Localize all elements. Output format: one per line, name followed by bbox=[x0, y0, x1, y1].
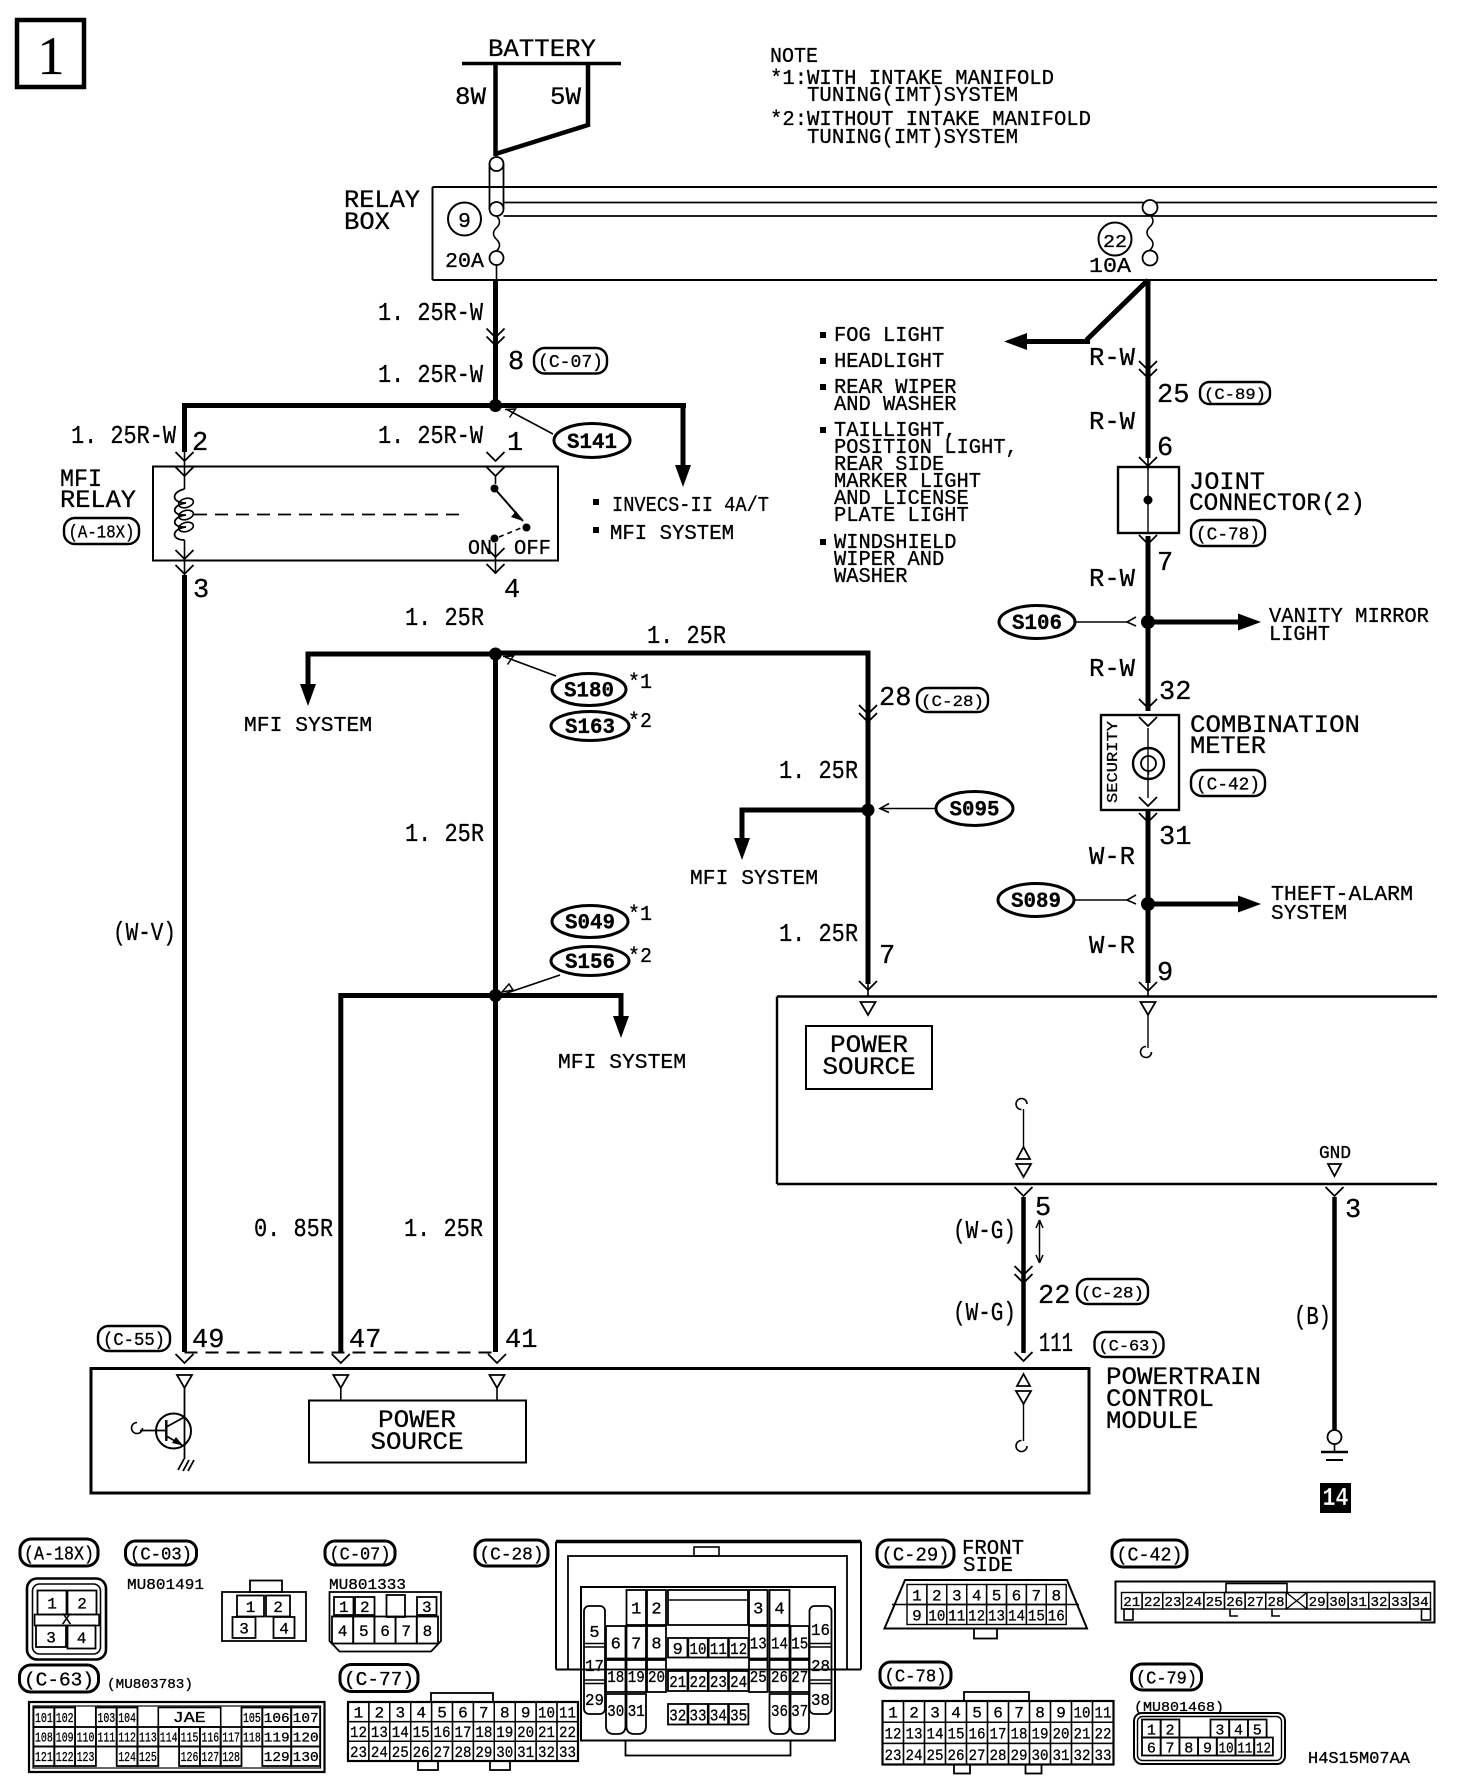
svg-text:6: 6 bbox=[1147, 1741, 1156, 1758]
svg-text:5: 5 bbox=[992, 1588, 1002, 1606]
svg-text:6: 6 bbox=[611, 1635, 621, 1654]
svg-text:3: 3 bbox=[422, 1599, 432, 1617]
svg-text:MFI SYSTEM: MFI SYSTEM bbox=[610, 522, 734, 546]
twisted pair arrow bbox=[1039, 1220, 1041, 1263]
svg-text:9: 9 bbox=[1157, 959, 1173, 989]
svg-text:21: 21 bbox=[669, 1674, 686, 1693]
power source inner block bbox=[806, 1026, 932, 1089]
wire arrow MFI system 2 bbox=[742, 810, 868, 838]
svg-text:14: 14 bbox=[1008, 1608, 1025, 1626]
svg-text:3: 3 bbox=[46, 1629, 56, 1647]
svg-text:*2: *2 bbox=[628, 710, 652, 734]
svg-text:115: 115 bbox=[181, 1732, 199, 1747]
svg-text:0. 85R: 0. 85R bbox=[254, 1214, 333, 1244]
svg-text:29: 29 bbox=[1309, 1595, 1326, 1611]
svg-text:14: 14 bbox=[771, 1635, 788, 1654]
svg-text:32: 32 bbox=[1371, 1595, 1388, 1611]
svg-text:JAE: JAE bbox=[173, 1710, 206, 1727]
svg-text:26: 26 bbox=[948, 1747, 965, 1765]
svg-text:1. 25R-W: 1. 25R-W bbox=[71, 421, 176, 451]
svg-text:126: 126 bbox=[181, 1751, 199, 1766]
ground G bbox=[1328, 1430, 1342, 1444]
svg-text:26: 26 bbox=[771, 1669, 788, 1688]
svg-text:10: 10 bbox=[928, 1608, 945, 1626]
power source box bbox=[777, 995, 1437, 997]
svg-text:R-W: R-W bbox=[1089, 407, 1135, 437]
svg-text:(C-55): (C-55) bbox=[103, 1331, 165, 1351]
svg-text:14: 14 bbox=[1323, 1483, 1349, 1513]
svg-text:15: 15 bbox=[1028, 1608, 1045, 1626]
svg-text:(W-G): (W-G) bbox=[953, 1216, 1016, 1246]
svg-text:7: 7 bbox=[479, 1705, 489, 1723]
pin 3 exit bbox=[176, 550, 194, 559]
svg-text:10: 10 bbox=[1219, 1741, 1234, 1758]
svg-text:SOURCE: SOURCE bbox=[371, 1428, 464, 1457]
svg-text:27: 27 bbox=[434, 1744, 451, 1762]
svg-text:H4S15M07AA: H4S15M07AA bbox=[1308, 1750, 1411, 1769]
svg-text:(C-28): (C-28) bbox=[1081, 1284, 1144, 1302]
svg-text:130: 130 bbox=[293, 1751, 319, 1766]
svg-text:116: 116 bbox=[201, 1732, 219, 1747]
svg-text:9: 9 bbox=[521, 1705, 531, 1723]
svg-text:120: 120 bbox=[293, 1732, 319, 1747]
svg-text:S180: S180 bbox=[564, 679, 614, 704]
svg-text:32: 32 bbox=[669, 1707, 686, 1726]
connector C-28 pinout bbox=[475, 1540, 548, 1566]
svg-text:8: 8 bbox=[500, 1705, 510, 1723]
splice S163 bbox=[551, 712, 629, 741]
svg-text:(C-29): (C-29) bbox=[882, 1544, 950, 1566]
splice S049 bbox=[552, 906, 628, 938]
svg-text:3: 3 bbox=[930, 1705, 940, 1723]
svg-text:121: 121 bbox=[35, 1751, 53, 1766]
svg-text:111: 111 bbox=[1039, 1330, 1073, 1360]
svg-text:9: 9 bbox=[912, 1608, 922, 1626]
svg-text:29: 29 bbox=[585, 1692, 604, 1711]
INVECS list bbox=[593, 499, 599, 505]
svg-text:20A: 20A bbox=[445, 250, 484, 274]
transistor Q (PCM internal) bbox=[184, 1388, 186, 1459]
svg-text:12: 12 bbox=[350, 1724, 367, 1742]
svg-text:18: 18 bbox=[475, 1724, 492, 1742]
connector C-89 bbox=[1200, 382, 1270, 404]
svg-text:8W: 8W bbox=[455, 83, 486, 112]
svg-text:2: 2 bbox=[909, 1705, 919, 1723]
ground ref 14 bbox=[1320, 1483, 1351, 1513]
svg-text:41: 41 bbox=[505, 1326, 537, 1356]
svg-text:124: 124 bbox=[118, 1751, 136, 1766]
svg-text:18: 18 bbox=[607, 1669, 624, 1688]
svg-text:6: 6 bbox=[458, 1705, 468, 1723]
svg-text:S156: S156 bbox=[565, 950, 615, 975]
svg-text:125: 125 bbox=[139, 1751, 157, 1766]
bus bar in relay box bbox=[504, 202, 1438, 204]
svg-text:32: 32 bbox=[538, 1744, 555, 1762]
svg-text:110: 110 bbox=[77, 1732, 95, 1747]
svg-text:21: 21 bbox=[1074, 1726, 1091, 1744]
svg-text:1: 1 bbox=[354, 1705, 364, 1723]
svg-text:3: 3 bbox=[753, 1601, 763, 1620]
svg-text:CONNECTOR(2): CONNECTOR(2) bbox=[1189, 489, 1365, 518]
svg-text:5: 5 bbox=[437, 1705, 447, 1723]
wire (W-V) pin3 to 49 bbox=[182, 575, 187, 1352]
svg-text:6: 6 bbox=[1157, 434, 1173, 464]
svg-text:24: 24 bbox=[906, 1747, 923, 1765]
svg-text:(C-28): (C-28) bbox=[480, 1545, 544, 1565]
node S049/S156 junction bbox=[489, 989, 502, 1002]
wire arrow MFI system 1 bbox=[308, 654, 496, 684]
svg-text:8: 8 bbox=[651, 1635, 661, 1654]
wire 8W battery feed bbox=[493, 64, 498, 157]
wire arrow to theft-alarm system bbox=[1148, 902, 1240, 907]
svg-text:13: 13 bbox=[750, 1635, 767, 1654]
svg-text:(MU803783): (MU803783) bbox=[107, 1677, 193, 1693]
svg-text:1: 1 bbox=[888, 1705, 898, 1723]
svg-text:TUNING(IMT)SYSTEM: TUNING(IMT)SYSTEM bbox=[807, 126, 1018, 150]
fuse 22 (10A) bbox=[1143, 200, 1158, 215]
combination meter (security lamp) bbox=[1101, 715, 1179, 810]
wire arrow to fog/headlight loads bbox=[1026, 280, 1148, 342]
svg-text:S089: S089 bbox=[1011, 889, 1061, 914]
svg-text:4: 4 bbox=[416, 1705, 426, 1723]
svg-text:WASHER: WASHER bbox=[834, 565, 908, 589]
svg-text:16: 16 bbox=[811, 1622, 830, 1641]
svg-text:(C-89): (C-89) bbox=[1204, 386, 1266, 404]
svg-text:*1: *1 bbox=[628, 903, 652, 927]
svg-text:7: 7 bbox=[1014, 1705, 1024, 1723]
svg-text:21: 21 bbox=[538, 1724, 555, 1742]
svg-text:112: 112 bbox=[118, 1732, 136, 1747]
svg-text:7: 7 bbox=[401, 1623, 411, 1641]
svg-text:30: 30 bbox=[1329, 1595, 1346, 1611]
svg-text:24: 24 bbox=[730, 1674, 747, 1693]
svg-text:29: 29 bbox=[1011, 1747, 1028, 1765]
connector C-29 pinout bbox=[877, 1540, 954, 1567]
svg-text:38: 38 bbox=[811, 1692, 830, 1711]
svg-text:13: 13 bbox=[988, 1608, 1005, 1626]
svg-text:MFI SYSTEM: MFI SYSTEM bbox=[244, 714, 372, 738]
PCM pin 41 terminal bbox=[490, 1375, 505, 1388]
fusible link 9 (20A) bbox=[490, 157, 504, 171]
svg-text:1. 25R-W: 1. 25R-W bbox=[378, 298, 483, 328]
svg-text:1: 1 bbox=[38, 26, 65, 86]
svg-text:23: 23 bbox=[885, 1747, 902, 1765]
svg-text:5: 5 bbox=[359, 1623, 369, 1641]
svg-text:SYSTEM: SYSTEM bbox=[1271, 902, 1347, 926]
svg-text:119: 119 bbox=[264, 1732, 290, 1747]
svg-text:101: 101 bbox=[35, 1712, 53, 1727]
svg-text:107: 107 bbox=[293, 1712, 319, 1727]
svg-text:6: 6 bbox=[380, 1623, 390, 1641]
svg-text:7: 7 bbox=[1166, 1741, 1175, 1758]
svg-text:MFI SYSTEM: MFI SYSTEM bbox=[690, 867, 818, 891]
svg-text:122: 122 bbox=[56, 1751, 74, 1766]
svg-text:4: 4 bbox=[972, 1588, 982, 1606]
connector C-03 pinout bbox=[126, 1541, 197, 1565]
svg-text:26: 26 bbox=[1226, 1595, 1243, 1611]
svg-text:30: 30 bbox=[1032, 1747, 1049, 1765]
wire 28 C-28 branch bbox=[866, 651, 871, 985]
terminal pin 9 bbox=[1141, 1002, 1156, 1015]
svg-text:32: 32 bbox=[1159, 678, 1191, 708]
connector C-77 pinout bbox=[340, 1665, 418, 1692]
svg-text:7: 7 bbox=[1157, 549, 1173, 579]
svg-text:5: 5 bbox=[1035, 1194, 1051, 1224]
svg-text:10: 10 bbox=[1074, 1705, 1091, 1723]
svg-text:TUNING(IMT)SYSTEM: TUNING(IMT)SYSTEM bbox=[807, 84, 1018, 108]
node S180/S163 junction bbox=[489, 648, 502, 661]
wire to MFI relay row bbox=[182, 403, 686, 408]
svg-text:104: 104 bbox=[118, 1712, 136, 1727]
svg-text:S106: S106 bbox=[1012, 611, 1062, 636]
wire arrow to vanity mirror light bbox=[1148, 620, 1240, 625]
svg-text:6: 6 bbox=[993, 1705, 1003, 1723]
svg-text:SIDE: SIDE bbox=[963, 1554, 1013, 1578]
svg-text:31: 31 bbox=[628, 1703, 645, 1722]
svg-text:PLATE LIGHT: PLATE LIGHT bbox=[834, 504, 969, 528]
svg-text:129: 129 bbox=[264, 1751, 290, 1766]
svg-text:2: 2 bbox=[77, 1596, 87, 1614]
svg-text:S141: S141 bbox=[567, 430, 617, 455]
svg-text:1: 1 bbox=[507, 429, 523, 459]
connector C-55 row bbox=[98, 1326, 170, 1351]
svg-text:102: 102 bbox=[56, 1712, 74, 1727]
svg-text:(C-42): (C-42) bbox=[1196, 775, 1260, 795]
connector A-18X pinout bbox=[20, 1539, 98, 1566]
svg-text:13: 13 bbox=[906, 1726, 923, 1744]
svg-text:17: 17 bbox=[454, 1724, 471, 1742]
connector C-79 pinout bbox=[1132, 1664, 1202, 1690]
svg-text:123: 123 bbox=[77, 1751, 95, 1766]
svg-text:5W: 5W bbox=[550, 83, 581, 112]
wire arrow MFI system 3 bbox=[496, 996, 622, 1017]
svg-text:3: 3 bbox=[193, 576, 209, 606]
svg-text:1. 25R-W: 1. 25R-W bbox=[378, 360, 483, 390]
svg-text:14: 14 bbox=[392, 1724, 409, 1742]
connector C-78 pinout bbox=[880, 1662, 951, 1688]
svg-text:2: 2 bbox=[375, 1705, 385, 1723]
svg-text:2: 2 bbox=[651, 1601, 661, 1620]
svg-text:1. 25R: 1. 25R bbox=[405, 819, 484, 849]
pin 4 exit bbox=[487, 548, 505, 557]
svg-text:4: 4 bbox=[279, 1621, 289, 1639]
svg-text:22: 22 bbox=[690, 1674, 707, 1693]
svg-text:118: 118 bbox=[243, 1732, 261, 1747]
svg-text:27: 27 bbox=[791, 1669, 808, 1688]
svg-text:106: 106 bbox=[264, 1712, 290, 1727]
svg-text:NOTE: NOTE bbox=[770, 45, 818, 69]
svg-text:*1: *1 bbox=[628, 671, 652, 695]
terminal pin 7 bbox=[861, 1002, 876, 1015]
svg-text:1. 25R: 1. 25R bbox=[405, 603, 484, 633]
svg-text:1: 1 bbox=[246, 1599, 256, 1617]
svg-text:GND: GND bbox=[1319, 1144, 1351, 1164]
svg-text:1: 1 bbox=[912, 1588, 922, 1606]
PCM pin 111 terminal bbox=[1017, 1374, 1030, 1386]
svg-text:W-R: W-R bbox=[1089, 931, 1135, 961]
svg-text:27: 27 bbox=[969, 1747, 986, 1765]
svg-text:17: 17 bbox=[585, 1658, 604, 1677]
svg-text:32: 32 bbox=[1074, 1747, 1091, 1765]
svg-text:19: 19 bbox=[1032, 1726, 1049, 1744]
svg-text:3: 3 bbox=[239, 1621, 249, 1639]
svg-text:LIGHT: LIGHT bbox=[1269, 623, 1330, 647]
connector C-07 pinout bbox=[325, 1541, 395, 1565]
svg-text:117: 117 bbox=[222, 1732, 240, 1747]
svg-text:HEADLIGHT: HEADLIGHT bbox=[834, 350, 944, 374]
svg-text:FOG LIGHT: FOG LIGHT bbox=[834, 324, 944, 348]
svg-text:33: 33 bbox=[1095, 1747, 1112, 1765]
svg-text:4: 4 bbox=[951, 1705, 961, 1723]
svg-text:12: 12 bbox=[968, 1608, 985, 1626]
svg-text:31: 31 bbox=[1350, 1595, 1367, 1611]
powertrain control module box bbox=[91, 1369, 1089, 1494]
svg-text:AND WASHER: AND WASHER bbox=[834, 393, 957, 417]
splice S156 bbox=[551, 947, 629, 976]
svg-text:3: 3 bbox=[395, 1705, 405, 1723]
svg-text:8: 8 bbox=[1051, 1588, 1061, 1606]
svg-text:4: 4 bbox=[338, 1623, 348, 1641]
svg-text:(C-07): (C-07) bbox=[538, 353, 603, 373]
svg-text:MU801491: MU801491 bbox=[127, 1577, 204, 1594]
svg-text:26: 26 bbox=[413, 1744, 430, 1762]
splice S180 bbox=[552, 674, 626, 706]
svg-text:S049: S049 bbox=[565, 911, 615, 936]
svg-text:MFI SYSTEM: MFI SYSTEM bbox=[558, 1051, 686, 1075]
svg-text:9: 9 bbox=[458, 210, 471, 234]
svg-text:22: 22 bbox=[1103, 233, 1127, 253]
svg-text:28: 28 bbox=[879, 684, 911, 714]
svg-text:15: 15 bbox=[791, 1635, 808, 1654]
svg-text:25: 25 bbox=[1157, 381, 1189, 411]
svg-text:9: 9 bbox=[1203, 1741, 1212, 1758]
svg-text:2: 2 bbox=[360, 1599, 370, 1617]
joint connector (2) bbox=[1118, 467, 1179, 533]
svg-text:11: 11 bbox=[1237, 1741, 1252, 1758]
svg-text:25: 25 bbox=[750, 1669, 767, 1688]
svg-text:12: 12 bbox=[885, 1726, 902, 1744]
svg-text:128: 128 bbox=[222, 1751, 240, 1766]
ground (PCM internal) bbox=[178, 1459, 194, 1471]
svg-text:*2: *2 bbox=[628, 945, 652, 969]
svg-text:S095: S095 bbox=[950, 798, 1000, 823]
wire 0.85R branch bbox=[341, 996, 498, 1353]
node vanity junction bbox=[1141, 615, 1155, 629]
svg-text:31: 31 bbox=[517, 1744, 534, 1762]
internal link to pin 5 bbox=[1016, 1099, 1027, 1110]
wire 1.25R main down bbox=[493, 651, 498, 998]
connector C-63 pinout bbox=[20, 1665, 99, 1692]
svg-text:10: 10 bbox=[690, 1641, 707, 1660]
splice S141 bbox=[554, 424, 630, 458]
svg-text:RELAY: RELAY bbox=[60, 486, 136, 515]
svg-text:23: 23 bbox=[350, 1744, 367, 1762]
PCM power source block bbox=[309, 1401, 526, 1463]
node S141 junction bbox=[489, 399, 502, 412]
svg-text:18: 18 bbox=[1011, 1726, 1028, 1744]
svg-text:BOX: BOX bbox=[344, 208, 390, 237]
svg-text:(B): (B) bbox=[1294, 1302, 1331, 1332]
svg-text:1. 25R: 1. 25R bbox=[404, 1214, 483, 1244]
svg-text:19: 19 bbox=[496, 1724, 513, 1742]
svg-text:(C-42): (C-42) bbox=[1117, 1544, 1183, 1566]
svg-text:S163: S163 bbox=[565, 715, 615, 740]
svg-text:3: 3 bbox=[1345, 1196, 1361, 1226]
svg-text:1: 1 bbox=[47, 1596, 57, 1614]
svg-text:R-W: R-W bbox=[1089, 343, 1135, 373]
svg-text:36: 36 bbox=[771, 1703, 788, 1722]
svg-text:25: 25 bbox=[392, 1744, 409, 1762]
svg-text:31: 31 bbox=[1159, 823, 1191, 853]
svg-text:10A: 10A bbox=[1089, 255, 1131, 279]
svg-text:5: 5 bbox=[972, 1705, 982, 1723]
wire 1.25R to pin 41 bbox=[493, 996, 498, 1353]
svg-text:33: 33 bbox=[559, 1744, 576, 1762]
wire (B) ground bbox=[1326, 1187, 1344, 1196]
wire arrow to INVECS/MFI bbox=[681, 403, 686, 467]
svg-text:15: 15 bbox=[413, 1724, 430, 1742]
svg-text:INVECS-II 4A/T: INVECS-II 4A/T bbox=[612, 494, 769, 518]
svg-text:37: 37 bbox=[791, 1703, 808, 1722]
svg-text:SECURITY: SECURITY bbox=[1105, 721, 1122, 803]
svg-text:23: 23 bbox=[1165, 1595, 1182, 1611]
svg-text:3: 3 bbox=[952, 1588, 962, 1606]
svg-text:4: 4 bbox=[504, 576, 520, 606]
svg-text:22: 22 bbox=[559, 1724, 576, 1742]
svg-text:28: 28 bbox=[811, 1658, 830, 1677]
svg-text:(C-78): (C-78) bbox=[885, 1667, 947, 1687]
svg-text:16: 16 bbox=[969, 1726, 986, 1744]
svg-text:4: 4 bbox=[77, 1630, 87, 1648]
svg-text:24: 24 bbox=[371, 1744, 388, 1762]
relay contact pin1->4 bbox=[495, 476, 497, 484]
svg-text:24: 24 bbox=[1185, 1595, 1202, 1611]
svg-text:SOURCE: SOURCE bbox=[823, 1053, 916, 1082]
svg-text:(A-18X): (A-18X) bbox=[69, 523, 135, 543]
svg-text:1. 25R: 1. 25R bbox=[779, 919, 858, 949]
wire (W-G) pin 5 bbox=[1015, 1187, 1033, 1196]
svg-text:109: 109 bbox=[56, 1732, 74, 1747]
wire 1.25R to 28 C-28 bbox=[493, 651, 871, 656]
svg-text:114: 114 bbox=[160, 1732, 178, 1747]
svg-text:R-W: R-W bbox=[1089, 654, 1135, 684]
svg-text:113: 113 bbox=[139, 1732, 157, 1747]
svg-text:23: 23 bbox=[710, 1674, 727, 1693]
svg-text:19: 19 bbox=[628, 1669, 645, 1688]
wire pin 2 MFI relay bbox=[182, 403, 187, 452]
svg-text:4: 4 bbox=[774, 1601, 784, 1620]
svg-text:8: 8 bbox=[423, 1623, 433, 1641]
svg-text:27: 27 bbox=[1247, 1595, 1264, 1611]
connector C-42 pinout bbox=[1112, 1540, 1187, 1567]
PCM pin 49 terminal bbox=[177, 1375, 192, 1388]
svg-text:35: 35 bbox=[730, 1707, 747, 1726]
svg-text:METER: METER bbox=[1190, 732, 1266, 761]
svg-text:8: 8 bbox=[508, 348, 524, 378]
svg-text:11: 11 bbox=[559, 1705, 576, 1723]
svg-text:(W-G): (W-G) bbox=[953, 1298, 1016, 1328]
relay coil bbox=[175, 489, 186, 540]
wire R-W fuse22 down bbox=[1146, 280, 1151, 458]
svg-text:6: 6 bbox=[1012, 1588, 1022, 1606]
svg-text:111: 111 bbox=[97, 1732, 115, 1747]
svg-text:33: 33 bbox=[1391, 1595, 1408, 1611]
svg-text:14: 14 bbox=[927, 1726, 944, 1744]
svg-text:10: 10 bbox=[538, 1705, 555, 1723]
svg-text:31: 31 bbox=[1053, 1747, 1070, 1765]
svg-text:22: 22 bbox=[1144, 1595, 1161, 1611]
svg-text:11: 11 bbox=[1095, 1705, 1112, 1723]
